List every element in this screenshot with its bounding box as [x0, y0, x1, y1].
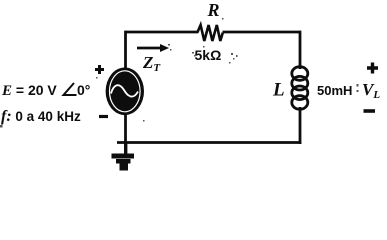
ZT arrow — [137, 47, 161, 50]
wire top-left horizontal (source top corner to resistor) — [125, 31, 198, 34]
ac source E body — [106, 68, 144, 116]
wire right vertical lower (inductor to bottom corner) — [299, 107, 302, 144]
scan speckles — [0, 18, 359, 128]
svg-text:E = 20 V: E = 20 V — [1, 82, 57, 99]
wire bottom horizontal — [117, 141, 301, 144]
ground symbol — [112, 143, 135, 171]
wire top-right horizontal (resistor to right corner) — [223, 31, 302, 34]
svg-text:VL: VL — [362, 80, 380, 101]
svg-text:5kΩ: 5kΩ — [195, 47, 222, 63]
wire right vertical upper (corner to inductor) — [299, 31, 302, 69]
svg-text:R: R — [207, 0, 220, 20]
angle symbol — [64, 83, 77, 95]
wire left vertical upper (corner to source) — [124, 31, 127, 69]
wire left vertical lower (source to bottom wire) — [124, 113, 127, 142]
resistor R1 zigzag — [197, 25, 223, 41]
svg-text:f: 0 a 40 kHz: f: 0 a 40 kHz — [1, 108, 81, 125]
svg-text:L: L — [272, 80, 285, 101]
source plus sign — [95, 65, 104, 74]
svg-text:ZT: ZT — [142, 53, 161, 74]
inductor L1 coil — [292, 67, 308, 110]
source minus sign — [99, 115, 108, 118]
svg-text:0°: 0° — [77, 82, 90, 98]
VL minus sign — [364, 109, 376, 113]
VL plus sign — [367, 63, 378, 74]
svg-text:50mH: 50mH — [317, 83, 352, 98]
